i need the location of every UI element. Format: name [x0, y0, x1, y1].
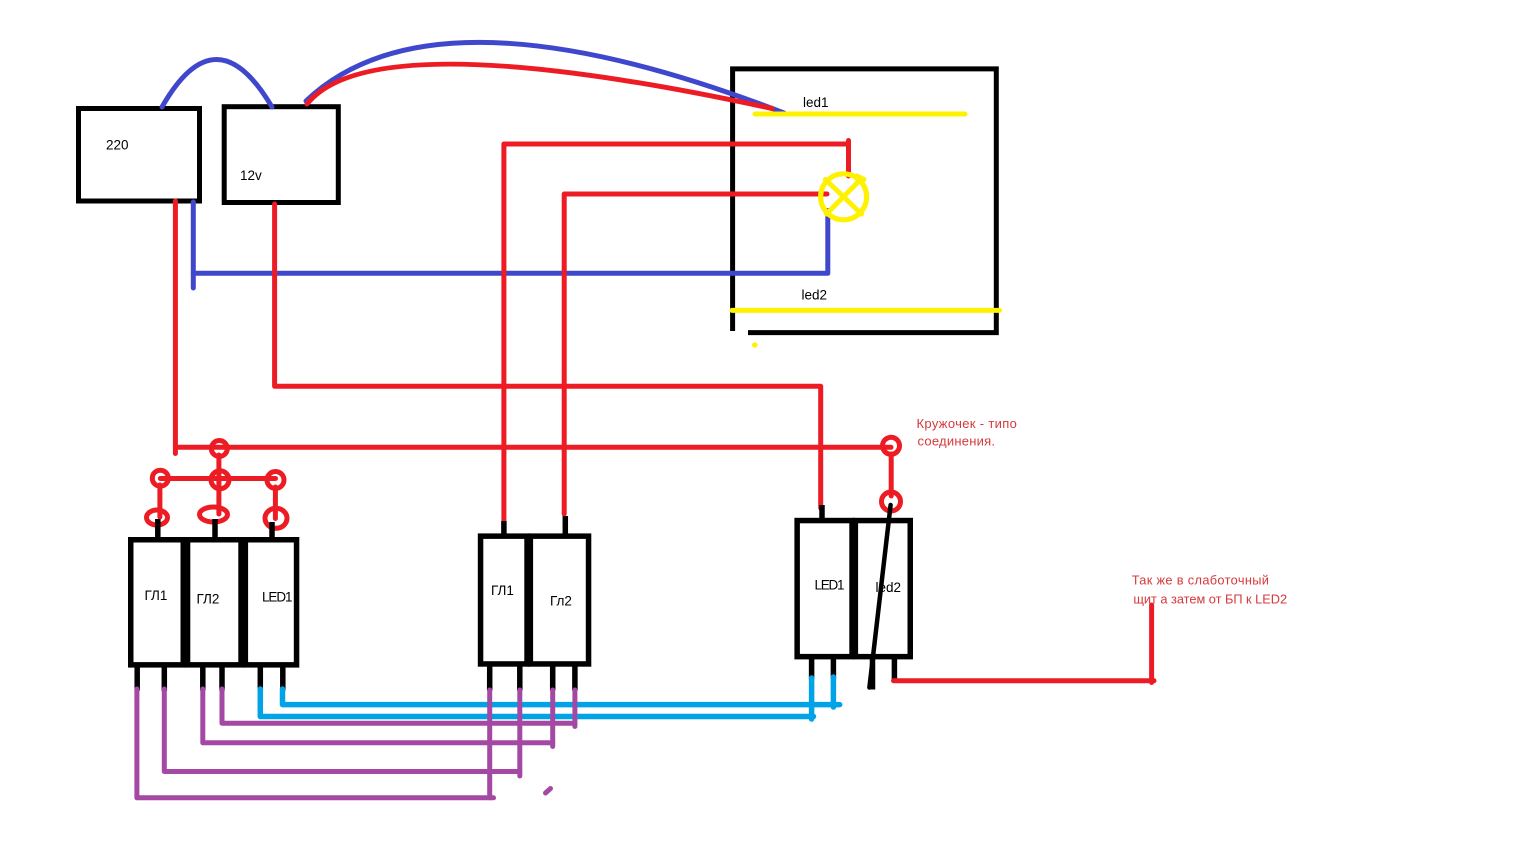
- junction ellipse F: [200, 507, 228, 522]
- wire purple pair 3: [203, 689, 553, 743]
- terminal stub bank2 top 2: [563, 516, 569, 538]
- terminal stub bank2 bottom 4: [572, 664, 578, 691]
- svg-text:LED1: LED1: [262, 590, 293, 605]
- terminal stub bank1 bottom 3: [200, 664, 206, 691]
- wire blue arc 220 to 12v: [162, 60, 272, 108]
- wire red corner tail: [173, 447, 178, 453]
- junction circle D: [267, 472, 284, 489]
- svg-text:Гл2: Гл2: [550, 593, 572, 608]
- svg-text:led2: led2: [802, 288, 828, 303]
- svg-text:ГЛ1: ГЛ1: [491, 583, 514, 598]
- power supply box 12v: [224, 107, 338, 203]
- wire red C to E drop: [157, 485, 162, 517]
- junction circle A: [211, 441, 227, 457]
- svg-text:led1: led1: [803, 95, 829, 110]
- terminal stub bank3 bottom 3: [870, 656, 876, 690]
- svg-text:ГЛ1: ГЛ1: [145, 588, 168, 603]
- terminal stub bank1 top 1: [155, 519, 161, 540]
- svg-text:Кружочек - типо: Кружочек - типо: [917, 416, 1017, 431]
- switch bank 1 gang GL1: [131, 540, 184, 665]
- wire purple pair 4: [222, 689, 575, 723]
- wire cyan upper riser: [831, 677, 837, 707]
- terminal stub bank2 top 1: [501, 521, 507, 538]
- terminal stub bank1 top 2: [212, 519, 218, 540]
- terminal stub bank1 bottom 4: [219, 664, 225, 691]
- terminal stub bank1 bottom 6: [280, 664, 286, 691]
- svg-text:щит а затем от БП к LED2: щит а затем от БП к LED2: [1133, 592, 1287, 607]
- svg-text:220: 220: [106, 138, 129, 153]
- wire red A to F drop: [216, 455, 221, 514]
- purple stray dash: [546, 789, 551, 794]
- wire red sub-bus horizontal: [160, 476, 275, 481]
- terminal stub bank3 top: [819, 505, 825, 522]
- led1 strip (yellow): [755, 112, 965, 117]
- wire red H to H2 drop: [889, 454, 894, 496]
- lamp L1 cross: [826, 180, 862, 215]
- wire red D to G drop: [273, 487, 278, 519]
- ceiling junction box (top): [733, 69, 999, 333]
- wire purple pair 2: [164, 689, 520, 772]
- switch bank 1 gang LED1: [245, 540, 296, 665]
- yellow stray dot: [752, 342, 758, 348]
- wire cyan lower run: [260, 689, 813, 717]
- terminal stub bank3 bottom 2: [831, 656, 837, 679]
- wire cyan upper run: [283, 689, 840, 705]
- terminal stub bank1 bottom 5: [258, 664, 264, 691]
- wire blue neutral run to lamp: [193, 211, 828, 274]
- svg-text:ГЛ2: ГЛ2: [197, 592, 220, 607]
- wire red arc 12v to led1: [307, 64, 772, 108]
- junction ellipse E: [147, 510, 168, 525]
- wire purple nub 3: [550, 743, 555, 747]
- lamp L1 circle: [821, 174, 867, 220]
- wire purple pair 1: [137, 689, 490, 798]
- terminal stub bank1 bottom 1: [134, 664, 140, 691]
- junction circle H: [883, 437, 900, 454]
- wire red lamp top drop: [846, 141, 851, 177]
- svg-text:соединения.: соединения.: [918, 434, 996, 449]
- terminal stub bank1 bottom 2: [162, 664, 168, 691]
- svg-text:LED1: LED1: [815, 578, 845, 593]
- wire red switch GL1 to lamp top: [504, 144, 849, 521]
- switch bank 2 gang GL1: [481, 536, 528, 664]
- svg-text:12v: 12v: [240, 168, 262, 183]
- wire cyan lower riser: [809, 678, 815, 719]
- wire red to low-voltage panel vertical: [1149, 605, 1154, 683]
- lamp pen artifact: [857, 176, 864, 180]
- wire red switch GL2 to lamp left: [564, 194, 827, 514]
- wire red 12v output to led switch: [275, 204, 821, 508]
- terminal stub bank2 bottom 3: [550, 664, 556, 691]
- terminal stub bank1 top 3: [269, 522, 275, 540]
- terminal stub bank2 bottom 2: [517, 664, 523, 691]
- junction ellipse G: [265, 508, 287, 528]
- terminal stub bank3 bottom 4: [892, 656, 898, 680]
- wire purple nub 2: [517, 772, 522, 777]
- junction circle H2: [882, 492, 901, 511]
- junction circle B: [211, 471, 229, 489]
- junction circle C: [152, 470, 168, 486]
- terminal stub bank2 bottom 1: [487, 664, 493, 691]
- wire blue neutral vertical under 220: [191, 202, 196, 288]
- switch bank 3 gang led2: [855, 521, 910, 657]
- led2 strip (yellow): [732, 308, 1000, 313]
- wire red to low-voltage panel horizontal: [894, 678, 1155, 683]
- svg-text:Так же в слаботочный: Так же в слаботочный: [1132, 573, 1269, 588]
- wire purple nub 1: [490, 795, 494, 800]
- terminal stub bank3 bottom 1: [809, 656, 815, 680]
- switch lever diagonal: [869, 505, 890, 688]
- wire purple nub 4: [572, 723, 577, 726]
- switch bank 3 gang LED1: [797, 521, 852, 657]
- switch bank 1 gang GL2: [188, 540, 242, 665]
- wire blue arc 12v to led1: [306, 42, 784, 113]
- wire red 220 phase down to bus: [175, 201, 891, 447]
- power source box 220: [79, 109, 200, 202]
- switch bank 2 gang Gl2: [530, 536, 588, 664]
